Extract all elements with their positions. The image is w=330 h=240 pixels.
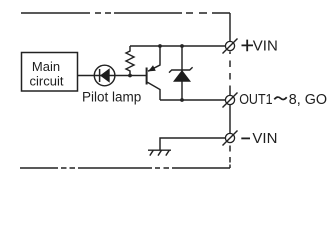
transistor emitter lead (top, arrow toward base) <box>148 46 160 71</box>
wire: -V rail from ground corner to -VIN terminal <box>160 138 225 150</box>
svg-text:OUT1: OUT1 <box>239 91 272 108</box>
ground (chassis ground) <box>148 150 171 155</box>
transistor base bar <box>146 68 148 85</box>
wire: top boundary line (partly dashed) <box>21 12 230 14</box>
svg-text:VIN: VIN <box>253 37 278 54</box>
resistor R1 (base resistor) <box>126 46 134 76</box>
svg-text:Main: Main <box>32 59 60 74</box>
wire: right vertical from top boundary down to +VIN terminal <box>229 13 231 42</box>
terminal OUT1~8, GO <box>223 93 238 108</box>
wire: OUT rail from collector to OUT terminal <box>160 99 225 101</box>
node: junction dot zener cathode / +V rail <box>180 44 184 48</box>
wire: dashed vertical between +VIN and OUT terminals <box>229 52 231 96</box>
node: junction dot zener anode / OUT rail <box>180 98 184 102</box>
zener diode ZD1 <box>169 46 193 100</box>
svg-text:8, GO: 8, GO <box>289 91 327 108</box>
label: -VIN <box>241 130 277 147</box>
svg-text:Pilot lamp: Pilot lamp <box>82 89 141 104</box>
wire: base lead from junction to transistor base <box>130 75 146 77</box>
wire: Main circuit box to pilot lamp to junction <box>78 75 130 77</box>
svg-text:circuit: circuit <box>30 73 64 88</box>
Main circuit block <box>22 53 78 92</box>
transistor Q1 (PNP) <box>147 46 160 100</box>
wire: bottom boundary line (partly dashed) <box>20 167 230 169</box>
terminal -VIN <box>223 131 238 146</box>
wire: +V rail to +VIN terminal <box>130 45 225 47</box>
label: Main circuit <box>30 59 64 88</box>
transistor collector lead (bottom) <box>147 82 160 100</box>
terminal +VIN <box>223 39 238 54</box>
wire: dashed vertical below -VIN to bottom boundary <box>229 146 231 169</box>
wire: solid vertical between OUT and -VIN terminals <box>229 105 231 134</box>
svg-text:VIN: VIN <box>252 130 277 147</box>
label: +VIN <box>242 37 278 54</box>
node: junction dot resistor / base wire <box>128 74 132 78</box>
pilot lamp LED <box>94 65 115 86</box>
node: junction dot transistor emitter / +V rail <box>158 44 162 48</box>
